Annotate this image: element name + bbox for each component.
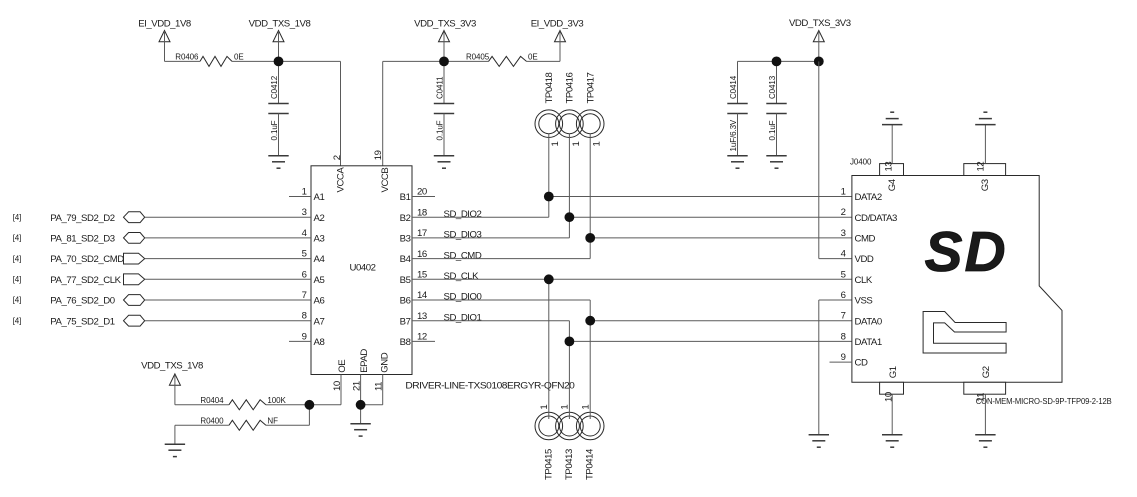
wire VCCB corner to R0405 — [383, 60, 489, 62]
port PA_70_SD2_CMD — [13, 253, 145, 265]
svg-text:9: 9 — [841, 352, 846, 363]
pin 3 A2 — [302, 207, 325, 224]
svg-text:EPAD: EPAD — [359, 349, 370, 373]
wire DATA1 row — [569, 340, 852, 342]
svg-text:PA_79_SD2_D2: PA_79_SD2_D2 — [50, 213, 114, 224]
svg-text:EI_VDD_3V3: EI_VDD_3V3 — [531, 19, 584, 30]
pin 1 DATA2 — [841, 187, 882, 204]
svg-text:CLK: CLK — [855, 275, 873, 286]
svg-text:SD_CMD: SD_CMD — [444, 250, 482, 261]
svg-text:SD: SD — [925, 220, 1008, 284]
svg-text:20: 20 — [417, 187, 427, 198]
svg-text:0.1uF: 0.1uF — [436, 120, 445, 140]
svg-text:TP0418: TP0418 — [544, 72, 555, 103]
svg-text:B4: B4 — [400, 254, 412, 265]
svg-text:0E: 0E — [528, 53, 538, 62]
svg-text:VCCB: VCCB — [380, 168, 391, 193]
svg-text:B5: B5 — [400, 275, 411, 286]
svg-text:19: 19 — [373, 150, 384, 160]
svg-text:C0411: C0411 — [436, 76, 445, 99]
wire PA_70_SD2_CMD to U0402 — [145, 258, 311, 260]
junction — [814, 57, 824, 67]
op-amp U0402 (level shifter IC) — [311, 166, 412, 375]
wire TP0417 — [589, 134, 591, 238]
wire VCCA supply — [340, 61, 342, 165]
wire PA_77_SD2_CLK to U0402 — [145, 278, 311, 280]
pin 19 VCCB — [373, 150, 391, 192]
junction — [585, 233, 595, 243]
junction — [772, 57, 782, 67]
pin 4 VDD — [841, 249, 874, 266]
wire TP0418 — [548, 134, 550, 197]
ground — [165, 444, 185, 456]
wire DATA0 row — [590, 320, 852, 322]
power port VDD_TXS_3V3 — [789, 18, 851, 61]
junction — [544, 274, 554, 284]
svg-text:A8: A8 — [314, 337, 325, 348]
ground — [975, 435, 995, 447]
wire VDD_TXS_3V3 to VDD pin 4 — [818, 61, 820, 258]
pin 4 A3 — [302, 228, 325, 245]
wire TP0416 — [568, 134, 570, 218]
svg-text:VCCA: VCCA — [336, 167, 347, 193]
junction — [544, 192, 554, 202]
svg-text:SD_DIO3: SD_DIO3 — [444, 230, 482, 241]
svg-text:J0400: J0400 — [850, 157, 872, 166]
svg-text:C0412: C0412 — [270, 75, 279, 99]
wire CD/DATA3 row — [569, 216, 852, 218]
svg-text:CD: CD — [855, 358, 868, 369]
wire PA_81_SD2_D3 to U0402 — [145, 237, 311, 239]
ground — [268, 156, 288, 168]
pin 12 B8 — [400, 332, 435, 348]
pin 6 A5 — [302, 269, 325, 286]
svg-text:C0413: C0413 — [768, 75, 777, 99]
svg-text:B3: B3 — [400, 234, 411, 245]
svg-text:TP0415: TP0415 — [543, 449, 554, 480]
svg-text:0.1uF: 0.1uF — [270, 120, 279, 140]
svg-text:21: 21 — [351, 381, 362, 391]
svg-text:17: 17 — [417, 228, 427, 239]
svg-text:16: 16 — [417, 249, 427, 260]
svg-text:0E: 0E — [234, 53, 244, 62]
capacitor C0414 1uF/6.3V — [727, 61, 747, 155]
junction — [565, 212, 575, 222]
svg-text:[4]: [4] — [13, 296, 22, 305]
ground — [882, 435, 902, 447]
svg-text:SD_DIO1: SD_DIO1 — [444, 312, 482, 323]
svg-text:DATA0: DATA0 — [855, 316, 882, 327]
pin 14 B6 — [400, 290, 435, 306]
wire TP0415 — [548, 279, 550, 419]
pin 8 A7 — [302, 311, 325, 328]
wire R0405 to EI_VDD_3V3 — [527, 60, 561, 62]
svg-text:10: 10 — [332, 381, 343, 391]
svg-text:PA_70_SD2_CMD: PA_70_SD2_CMD — [50, 254, 124, 265]
svg-text:CMD: CMD — [855, 234, 876, 245]
junction — [585, 316, 595, 326]
pin 3 CMD — [841, 228, 876, 245]
svg-text:G3: G3 — [980, 179, 991, 191]
svg-text:C0414: C0414 — [729, 75, 738, 99]
wire SD_DIO1 — [435, 320, 569, 322]
test point TP0418 — [535, 110, 563, 138]
svg-text:B1: B1 — [400, 192, 411, 203]
svg-text:SD_DIO0: SD_DIO0 — [444, 292, 482, 303]
svg-text:13: 13 — [417, 311, 427, 322]
port PA_77_SD2_CLK — [13, 274, 145, 286]
wire TP0413 — [568, 341, 570, 419]
svg-text:A1: A1 — [314, 192, 325, 203]
power port VDD_TXS_1V8 — [141, 360, 203, 404]
svg-text:OE: OE — [337, 360, 348, 373]
wire ground to R0400 — [175, 424, 229, 426]
svg-text:R0405: R0405 — [466, 53, 490, 62]
svg-text:DATA2: DATA2 — [855, 192, 882, 203]
svg-text:15: 15 — [417, 270, 427, 281]
svg-text:A2: A2 — [314, 213, 325, 224]
svg-text:1: 1 — [592, 142, 603, 147]
svg-text:8: 8 — [302, 311, 307, 322]
pin 1 A1 — [289, 187, 324, 204]
ground — [766, 156, 786, 168]
pin 13 B7 — [400, 311, 435, 327]
junction — [439, 57, 449, 67]
ground (flipped) — [882, 112, 902, 124]
svg-text:1uF/6.3V: 1uF/6.3V — [729, 119, 738, 151]
pin 11 G2 — [964, 366, 1006, 435]
power port VDD_TXS_1V8 — [249, 19, 311, 62]
svg-text:11: 11 — [373, 382, 384, 391]
connector J0400 — [850, 157, 1062, 382]
pin 6 VSS — [841, 290, 873, 307]
wire R0404 to OE — [266, 404, 341, 406]
junction — [356, 400, 366, 410]
svg-text:R0404: R0404 — [200, 396, 224, 405]
wire DATA2 row — [549, 196, 852, 198]
pin 18 B2 — [400, 207, 435, 223]
wire SD_CLK row — [435, 278, 852, 280]
pin 13 G4 — [880, 125, 904, 192]
svg-text:[4]: [4] — [13, 275, 22, 284]
pin 11 GND — [361, 352, 391, 404]
svg-text:SD_DIO2: SD_DIO2 — [444, 209, 482, 220]
port PA_75_SD2_D1 — [13, 315, 145, 327]
svg-text:G1: G1 — [888, 366, 899, 378]
svg-text:G4: G4 — [887, 178, 898, 191]
pin 5 CLK — [841, 269, 873, 286]
svg-text:[4]: [4] — [13, 234, 22, 243]
svg-text:TP0416: TP0416 — [565, 72, 576, 103]
ground — [727, 156, 747, 168]
svg-text:6: 6 — [841, 290, 846, 301]
svg-text:2: 2 — [332, 155, 343, 160]
pin 5 A4 — [302, 249, 326, 266]
pin 20 B1 — [400, 187, 435, 203]
wire PA_75_SD2_D1 to U0402 — [145, 320, 311, 322]
resistor R0400 NF — [200, 417, 278, 431]
wire R0400 to OE net — [266, 424, 310, 426]
svg-text:7: 7 — [302, 290, 307, 301]
svg-text:0.1uF: 0.1uF — [768, 120, 777, 140]
svg-text:8: 8 — [841, 331, 846, 342]
svg-text:GND: GND — [379, 352, 390, 372]
svg-text:VDD_TXS_1V8: VDD_TXS_1V8 — [141, 360, 203, 371]
pin 2 VCCA — [332, 155, 347, 192]
svg-text:A4: A4 — [314, 254, 326, 265]
pin 10 OE — [332, 360, 348, 405]
svg-text:VDD: VDD — [855, 254, 874, 265]
svg-text:5: 5 — [841, 269, 846, 280]
wire VDD_TXS_1V8 to R0404 — [175, 404, 229, 406]
resistor R0404 100K — [200, 396, 286, 410]
microSD card icon — [923, 312, 1006, 354]
pin 9 A8 — [289, 331, 324, 348]
svg-text:PA_75_SD2_D1: PA_75_SD2_D1 — [50, 316, 114, 327]
svg-text:1: 1 — [550, 142, 561, 147]
power port EI_VDD_1V8 — [138, 19, 191, 62]
svg-text:1: 1 — [841, 187, 846, 198]
svg-text:VDD_TXS_3V3: VDD_TXS_3V3 — [414, 19, 476, 30]
svg-text:PA_81_SD2_D3: PA_81_SD2_D3 — [50, 234, 114, 245]
test point TP0414 — [576, 412, 604, 440]
svg-text:TP0413: TP0413 — [564, 449, 575, 480]
ground — [434, 156, 454, 168]
pin 7 A6 — [302, 290, 325, 307]
power port VDD_TXS_3V3 — [414, 19, 476, 62]
capacitor C0413 0.1uF — [766, 61, 786, 155]
svg-text:A5: A5 — [314, 275, 325, 286]
svg-text:A3: A3 — [314, 234, 325, 245]
wire R0406 left lead — [165, 60, 201, 62]
capacitor C0411 0.1uF — [434, 61, 454, 155]
test point TP0416 — [556, 110, 584, 138]
svg-text:[4]: [4] — [13, 316, 22, 325]
wire VSS to ground — [819, 299, 852, 301]
pin 12 G3 — [964, 125, 1006, 192]
svg-text:3: 3 — [841, 228, 846, 239]
svg-text:U0402: U0402 — [349, 263, 375, 274]
port PA_76_SD2_D0 — [13, 295, 145, 307]
test point TP0417 — [576, 110, 604, 138]
port PA_81_SD2_D3 — [13, 233, 145, 245]
svg-text:VSS: VSS — [855, 296, 873, 307]
wire PA_76_SD2_D0 to U0402 — [145, 299, 311, 301]
svg-text:100K: 100K — [267, 396, 286, 405]
svg-text:VDD_TXS_1V8: VDD_TXS_1V8 — [249, 19, 311, 30]
junction — [565, 337, 575, 347]
capacitor C0412 0.1uF — [268, 61, 288, 155]
pin 9 CD — [830, 352, 868, 369]
svg-text:CD/DATA3: CD/DATA3 — [855, 213, 898, 224]
power port EI_VDD_3V3 — [531, 19, 584, 62]
test point TP0415 — [535, 412, 563, 440]
svg-text:DATA1: DATA1 — [855, 337, 882, 348]
wire SD_DIO0 — [435, 299, 590, 301]
ground (flipped) — [975, 112, 995, 124]
wire SD_CMD — [435, 258, 590, 260]
svg-text:B7: B7 — [400, 316, 411, 327]
svg-text:[4]: [4] — [13, 213, 22, 222]
pin 16 B4 — [400, 249, 435, 265]
pin 7 DATA0 — [841, 311, 882, 328]
svg-text:18: 18 — [417, 207, 427, 218]
wire CMD row — [590, 237, 852, 239]
pin 17 B3 — [400, 228, 435, 244]
svg-text:NF: NF — [267, 417, 278, 426]
svg-text:B8: B8 — [400, 337, 411, 348]
pin 15 B5 — [400, 270, 435, 286]
svg-text:A7: A7 — [314, 316, 325, 327]
svg-text:2: 2 — [841, 207, 846, 218]
pin 2 CD/DATA3 — [841, 207, 897, 224]
svg-text:B2: B2 — [400, 213, 411, 224]
svg-text:TP0414: TP0414 — [585, 448, 596, 480]
svg-text:SD_CLK: SD_CLK — [444, 271, 480, 282]
svg-text:1: 1 — [571, 142, 582, 147]
svg-text:12: 12 — [417, 332, 427, 343]
test point TP0413 — [556, 412, 584, 440]
svg-text:A6: A6 — [314, 296, 325, 307]
pin 8 DATA1 — [841, 331, 882, 348]
svg-text:CON-MEM-MICRO-SD-9P-TFP09-2-12: CON-MEM-MICRO-SD-9P-TFP09-2-12B — [976, 397, 1112, 406]
wire SD_DIO2 — [435, 216, 549, 218]
junction — [274, 57, 284, 67]
svg-text:G2: G2 — [981, 366, 992, 378]
resistor R0405 0E — [466, 53, 538, 67]
port PA_79_SD2_D2 — [13, 212, 145, 224]
wire VCCB supply — [382, 61, 384, 165]
wire TP0414 — [589, 321, 591, 419]
wire R0406 right to VCCA corner — [232, 60, 341, 62]
svg-text:EI_VDD_1V8: EI_VDD_1V8 — [138, 19, 191, 30]
svg-text:9: 9 — [302, 331, 307, 342]
ground — [809, 435, 829, 447]
wire EPAD/GND to ground — [360, 405, 362, 424]
ground — [350, 424, 370, 436]
svg-text:PA_77_SD2_CLK: PA_77_SD2_CLK — [50, 275, 121, 286]
svg-text:VDD_TXS_3V3: VDD_TXS_3V3 — [789, 18, 851, 29]
svg-text:1: 1 — [302, 187, 307, 198]
wire PA_79_SD2_D2 to U0402 — [145, 216, 311, 218]
svg-text:5: 5 — [302, 249, 307, 260]
svg-text:B6: B6 — [400, 296, 411, 307]
pin 21 EPAD — [351, 349, 370, 405]
wire caps to VDD_TXS_3V3 — [738, 60, 819, 62]
resistor R0406 0E — [175, 53, 243, 67]
svg-text:TP0417: TP0417 — [586, 72, 597, 103]
svg-text:R0406: R0406 — [175, 53, 199, 62]
pin 10 G1 — [880, 366, 904, 435]
svg-text:[4]: [4] — [13, 254, 22, 263]
svg-text:3: 3 — [302, 207, 307, 218]
svg-text:R0400: R0400 — [200, 417, 224, 426]
junction — [305, 400, 315, 410]
wire SD_DIO3 — [435, 237, 569, 239]
svg-text:PA_76_SD2_D0: PA_76_SD2_D0 — [50, 296, 114, 307]
svg-text:6: 6 — [302, 269, 307, 280]
svg-text:7: 7 — [841, 311, 846, 322]
svg-text:14: 14 — [417, 290, 428, 301]
